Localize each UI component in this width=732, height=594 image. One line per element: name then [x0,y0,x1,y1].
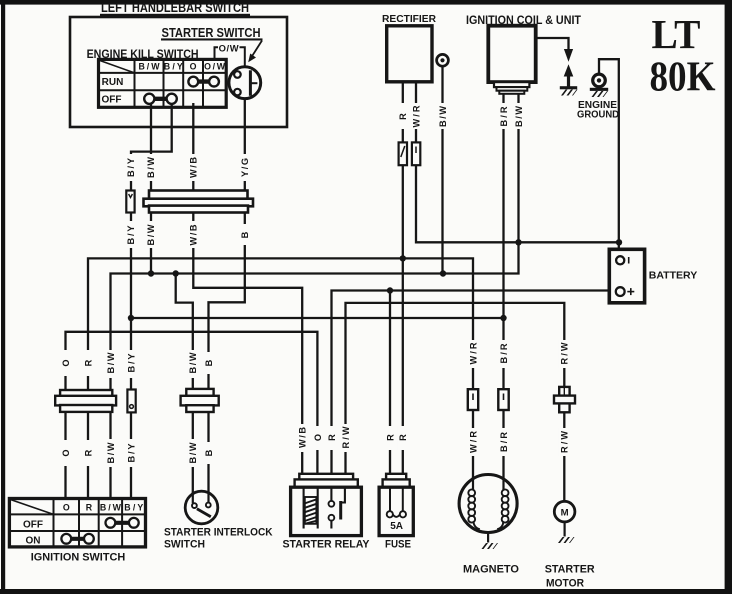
bus B/Y to B/R [131,317,504,319]
svg-text:O: O [61,449,71,456]
bus R/W relay to starter motor [346,303,565,474]
svg-text:STARTER: STARTER [545,563,595,575]
svg-text:W/R: W/R [411,105,421,127]
junction B/W grommet / bus [440,270,446,276]
spark plug gap [560,49,578,96]
connector on R/W starter motor wire (cross) [554,387,575,412]
magneto right winding [497,489,508,529]
wire label B/R (coil) [498,103,510,129]
bus B/W (H2) [111,274,444,391]
wire label B (to interlock) [203,352,214,374]
wire label B/Y [125,154,137,181]
svg-text:B/W: B/W [106,352,116,373]
connector on W/R magneto wire [468,389,478,410]
svg-text:RECTIFIER: RECTIFIER [382,14,437,25]
title LT 80K [650,11,716,101]
wire Y/G from starter switch down [244,99,246,191]
svg-text:Y/G: Y/G [240,158,250,177]
wire label O (relay) [312,426,323,450]
wire label R (fuse left) [385,426,396,450]
kill switch table texts [102,62,226,106]
junction R bus / rectifier [400,255,406,261]
svg-text:B/W: B/W [514,106,524,127]
wire label B/Y (below J2) [126,439,137,467]
wire label R/W (starter motor upper) [559,340,570,368]
svg-text:LT: LT [652,11,701,57]
svg-text:O/W: O/W [219,42,239,53]
svg-text:GROUND: GROUND [577,110,619,121]
wire label B/Y (below J1) [125,221,137,248]
connector on B/R magneto wire [498,389,508,410]
svg-text:B: B [240,231,250,238]
svg-text:B/W: B/W [106,442,116,463]
svg-text:FUSE: FUSE [385,538,411,550]
kill switch OFF contact (B/W to B/Y) [144,94,177,104]
wire label R (to ignition sw) [83,350,94,376]
wire label B (below J3) [203,442,214,464]
svg-text:B/R: B/R [499,106,509,126]
wire label B/W (below J2) [105,439,116,467]
junction B/W interlock / bus [173,270,179,276]
left handlebar switch label [100,0,250,16]
svg-text:R: R [398,113,408,120]
wire label O (to ignition sw) [60,350,71,376]
wire R rectifier to fuse [402,82,404,474]
svg-text:B/Y: B/Y [126,444,136,463]
svg-text:B/W: B/W [188,352,198,373]
svg-text:W/B: W/B [188,157,198,178]
relay coil [304,487,318,528]
wire B/W ignition coil to B/W bus [443,94,519,274]
junction B/W coil / battery minus bus [515,239,521,245]
wire B/W to ignition switch [109,412,111,499]
svg-text:B: B [204,359,214,366]
magneto left winding [468,489,479,529]
svg-text:B/W: B/W [146,157,156,178]
starter switch SW1 [229,67,261,99]
svg-text:R/W: R/W [560,431,570,453]
svg-text:SWITCH: SWITCH [164,539,205,551]
wire B/W from kill switch down [150,103,152,191]
wire spark plug lead [536,38,569,49]
svg-text:R: R [83,449,93,456]
wire O to ignition switch [64,412,66,499]
svg-text:B/Y: B/Y [164,62,183,72]
ignition coil and unit T1 [466,13,581,94]
svg-text:LEFT HANDLEBAR SWITCH: LEFT HANDLEBAR SWITCH [101,0,249,15]
svg-text:O: O [190,62,197,72]
grommet B/W [437,54,449,66]
svg-text:B/Y: B/Y [124,502,143,512]
rectifier U1 [382,14,437,82]
engine kill switch table [99,59,227,107]
wire W/B connector to starter relay [193,213,302,474]
svg-text:MAGNETO: MAGNETO [463,563,519,575]
wire label R/W (starter motor lower) [559,428,570,456]
connector on W/R wire [412,142,420,165]
svg-text:R: R [398,434,408,441]
svg-text:O: O [63,502,70,512]
svg-text:B/R: B/R [499,432,509,452]
wire label W/B (below J1) [187,221,199,248]
fuse F1 [379,474,413,536]
wire label B/W (to interlock) [187,350,198,378]
bus battery plus to relay R [332,291,613,474]
svg-text:R/W: R/W [341,426,351,448]
wire label W/R (magneto upper) [468,340,479,368]
svg-text:W/R: W/R [468,431,478,453]
svg-text:R: R [327,434,337,441]
wire label B/W (below J3) [187,439,198,467]
magneto G1 [459,475,519,576]
wire R to ignition switch [87,412,89,499]
svg-text:OFF: OFF [23,520,43,531]
svg-text:STARTER INTERLOCK: STARTER INTERLOCK [164,526,273,538]
wire W/R to magneto [472,410,474,480]
starter switch label [161,25,263,41]
bus O ignition to relay [66,332,318,474]
svg-text:O: O [313,434,323,441]
starter interlock switch [185,491,218,524]
wire label R/W (relay) [340,424,351,452]
kill switch RUN contact (O to O/W) [188,77,219,87]
junction engine ground / battery minus [616,239,622,245]
wire label W/R (rectifier) [410,103,422,129]
wire W/R rectifier to battery-minus bus [416,82,619,243]
wire label B/R (magneto upper) [498,340,509,368]
wire label W/R (magneto lower) [468,428,479,456]
connector B/Y bullet (upper) [126,191,134,213]
svg-text:5A: 5A [390,521,403,532]
svg-text:W/B: W/B [189,224,199,245]
svg-text:O/W: O/W [204,62,226,72]
magneto ground [487,532,489,543]
wire label R (rectifier) [398,103,408,129]
starter relay K1 [291,474,362,536]
svg-text:STARTER RELAY: STARTER RELAY [283,538,371,550]
connector J1 (handlebar harness) [144,191,254,213]
wire label B/W (to ignition sw) [105,350,116,378]
ignition OFF contact (B/W to B/Y) [106,518,139,528]
starter motor M1 [545,501,595,589]
ignition ON contact (O to R) [61,534,93,544]
svg-text:B/W: B/W [146,224,156,245]
svg-text:W/R: W/R [468,342,478,364]
connector J3 interlock harness [181,389,219,412]
svg-text:B/W: B/W [188,442,198,463]
svg-text:STARTER SWITCH: STARTER SWITCH [162,25,261,40]
wire engine ground to battery minus [599,59,619,257]
wire B/Y from kill switch with jog left [131,103,172,191]
wire B/Y connector to ignition switch [130,213,132,390]
svg-text:W/B: W/B [298,427,308,448]
svg-text:B/W: B/W [438,106,448,127]
wire label O (below J2) [60,440,71,466]
wire label W/B (relay) [297,424,308,452]
wire label R (below J2) [83,440,94,466]
svg-text:RUN: RUN [102,77,124,88]
junction B/Y / kill bus [128,315,134,321]
wire B/W grommet down [441,66,443,274]
wire label B/W [145,154,157,181]
wire B/R ignition coil to magneto [502,94,504,390]
junction B/R / kill bus [500,315,506,321]
wire label B/W (below J1) [145,221,157,248]
wire W/B from kill switch down [192,103,194,191]
wire label Y/G [239,154,251,181]
wire label B/W (coil) [513,103,525,129]
wire B/W kill to bus [150,213,152,274]
svg-text:M: M [561,508,569,519]
connector on R wire [399,142,407,165]
wire label R (fuse right) [397,426,408,450]
svg-text:B/Y: B/Y [126,226,136,245]
svg-text:MOTOR: MOTOR [546,577,584,589]
wire label B/Y (to ignition sw) [126,350,137,378]
battery BT1 [609,249,697,302]
node O/W link kill switch to starter switch [215,47,245,67]
junction B/W kill / bus [148,270,154,276]
svg-text:R/W: R/W [560,342,570,364]
wire label B (below J1) [239,224,251,245]
wire B/W bus to interlock [176,274,193,389]
wire B starter switch to interlock [209,213,245,389]
svg-text:R: R [385,434,395,441]
wire label W/B [187,154,199,181]
bus R (H1) [88,258,473,390]
svg-text:IGNITION SWITCH: IGNITION SWITCH [31,551,126,563]
svg-text:OFF: OFF [102,95,122,106]
arrow from starter switch label to switch [248,41,262,63]
svg-text:ON: ON [26,536,41,547]
wire label B/R (magneto lower) [498,428,509,456]
svg-text:R: R [83,359,93,366]
wire label B/W (grommet) [437,103,449,129]
svg-text:B: B [204,449,214,456]
svg-text:B/R: B/R [499,343,509,363]
fuse element [387,487,406,517]
svg-text:B/Y: B/Y [126,354,136,373]
svg-text:R: R [86,502,93,512]
ignition switch table [9,499,145,547]
relay contacts [329,487,345,528]
engine ground [577,74,619,121]
connector B/Y bullet (lower) [127,390,135,413]
svg-text:O: O [61,359,71,366]
svg-text:80K: 80K [650,55,716,101]
junction fuse R / battery plus bus [387,287,393,293]
wire label R (relay) [326,426,337,450]
left handlebar switch box [70,17,287,127]
ignition switch table texts [23,502,143,546]
svg-text:BATTERY: BATTERY [649,271,698,282]
wire R fuse tap [389,291,391,474]
svg-text:B/Y: B/Y [126,158,136,177]
connector J2 ignition switch harness [55,390,116,412]
